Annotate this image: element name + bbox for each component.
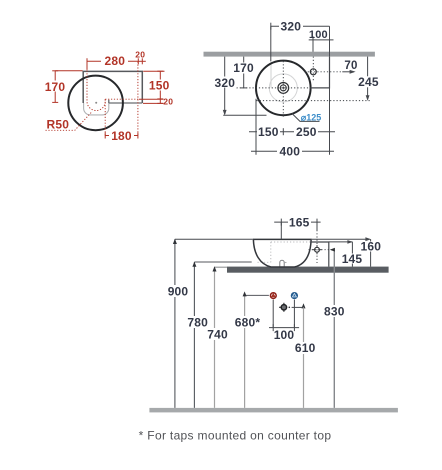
svg-text:170: 170 — [233, 61, 254, 75]
dimension 145 — [351, 242, 353, 267]
tap hole — [310, 69, 316, 75]
drain screw cross — [282, 87, 285, 89]
svg-text:* For taps mounted on counter: * For taps mounted on counter top — [139, 428, 332, 442]
dimension 780 — [193, 262, 195, 408]
drain inner circle — [280, 85, 286, 91]
floor bar — [149, 408, 398, 413]
tap dotted vertical — [312, 57, 314, 82]
svg-text:400: 400 — [279, 145, 300, 159]
svg-text:160: 160 — [360, 240, 381, 254]
red dotted bowl edge (R50) — [87, 62, 105, 111]
dimension 170 right-view — [240, 57, 247, 88]
center dot — [95, 102, 97, 104]
dimension 830 — [333, 250, 335, 408]
dimension 280 — [87, 58, 138, 70]
deck level ext line — [329, 241, 353, 243]
basin rim line — [253, 238, 312, 240]
dimension 610 — [292, 306, 304, 308]
left view labels — [44, 49, 173, 143]
dimension 150 + 20 right — [143, 71, 164, 103]
svg-text:145: 145 — [342, 252, 363, 266]
deck squared corner — [311, 57, 330, 88]
svg-text:740: 740 — [207, 328, 228, 342]
svg-text:20: 20 — [135, 49, 145, 59]
cold supply symbol — [292, 293, 298, 299]
dimension 680* — [244, 295, 246, 408]
waste outlet symbol — [281, 305, 286, 310]
light inner bowl circle — [269, 74, 297, 102]
dimension 20 top — [141, 58, 143, 64]
svg-text:680*: 680* — [235, 316, 261, 330]
dimension 70 arrow — [342, 71, 354, 73]
leader to 125 — [292, 114, 320, 122]
basin outer circle — [256, 61, 311, 116]
svg-text:320: 320 — [280, 19, 301, 33]
red ext line 150 bottom (y=99.2) — [105, 98, 139, 100]
svg-text:100: 100 — [274, 328, 295, 342]
tap symbol front — [315, 247, 320, 252]
svg-text:320: 320 — [214, 76, 235, 90]
hidden drain stub — [280, 260, 284, 266]
hidden deck dotted in bowl — [271, 241, 311, 243]
basin profile — [253, 240, 311, 267]
svg-text:150: 150 — [149, 78, 170, 92]
dimension 400 line — [251, 148, 334, 155]
svg-text:R50: R50 — [46, 117, 69, 131]
right view labels — [212, 19, 380, 158]
deck bottom edge — [109, 102, 143, 104]
R50 leader dotted — [46, 111, 93, 130]
dimension 180 — [105, 133, 138, 139]
tap dotted horizontal front — [309, 249, 334, 251]
rim level ext line — [175, 238, 254, 240]
dimension 150/250 line — [249, 88, 335, 154]
svg-text:165: 165 — [289, 215, 310, 229]
dimension 165 — [274, 219, 320, 240]
crosshair horizontal dotted — [237, 87, 311, 89]
counter slab — [227, 267, 389, 273]
basin inner bowl outline (light gray U) — [84, 100, 109, 115]
svg-text:150: 150 — [258, 125, 279, 139]
tap dotted horizontal — [305, 71, 343, 73]
crosshair vertical dotted — [282, 61, 284, 118]
svg-text:250: 250 — [296, 125, 317, 139]
svg-text:830: 830 — [324, 304, 345, 318]
svg-text:610: 610 — [295, 341, 316, 355]
svg-text:180: 180 — [111, 129, 132, 143]
dimension 320 left vertical — [223, 57, 266, 116]
dimension 245 — [367, 57, 369, 100]
red ext line 20 bottom (y=103.4) — [143, 102, 164, 104]
deck inner corner step — [108, 100, 110, 103]
dimension 100 top — [309, 36, 334, 51]
svg-text:900: 900 — [168, 285, 189, 299]
basin outer circle — [68, 76, 123, 131]
light deck left edge — [270, 62, 272, 88]
svg-text:245: 245 — [358, 75, 379, 89]
dimension 100 — [269, 300, 299, 332]
dimension 900 — [174, 239, 176, 408]
deck right of bowl — [311, 242, 329, 267]
hidden bowl bottom dashes — [258, 261, 271, 263]
hot supply symbol — [270, 293, 276, 299]
bottom view labels — [164, 215, 382, 355]
svg-text:280: 280 — [104, 54, 125, 68]
dimension 320 top — [271, 23, 330, 62]
svg-text:100: 100 — [309, 29, 328, 41]
counter top thin extension line — [214, 266, 227, 268]
dimension 160 — [370, 239, 372, 266]
red dotted tap line vertical — [137, 62, 139, 136]
svg-text:780: 780 — [187, 316, 208, 330]
svg-text:⌀125: ⌀125 — [301, 112, 321, 122]
svg-text:20: 20 — [163, 97, 173, 107]
dimension 740 — [214, 267, 216, 408]
svg-text:170: 170 — [45, 80, 66, 94]
tap dotted vertical front — [316, 230, 318, 263]
drain outer circle — [278, 83, 289, 94]
dimension 170 — [52, 71, 82, 103]
svg-text:70: 70 — [344, 60, 357, 72]
red dotted ext of 180 left — [104, 99, 106, 135]
dotted ref line y=100.6 — [257, 100, 372, 102]
counter/wall bar — [204, 52, 375, 57]
deck rectangle outline — [83, 71, 142, 103]
